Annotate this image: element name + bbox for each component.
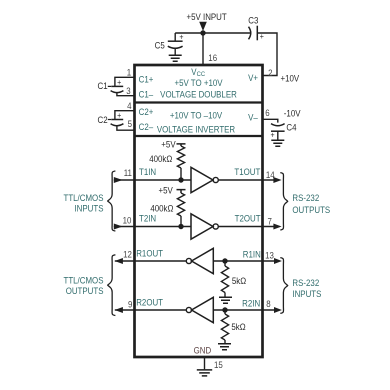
svg-text:C2–: C2– (139, 121, 154, 132)
arrow out of pin 14 (273, 177, 281, 183)
brace TTL/CMOS outputs (108, 255, 116, 316)
wire +5V input rail (C5 to C3 and down to pin 16) (175, 33, 277, 76)
svg-text:3: 3 (126, 86, 131, 97)
arrow out of pin 9 (115, 307, 123, 313)
svg-text:GND: GND (194, 345, 212, 356)
svg-text:C1+: C1+ (139, 74, 154, 85)
wire 400k 2 to T2 input (180, 216, 182, 227)
capacitor C2 curved plate (111, 124, 124, 126)
capacitor C5 top plate (168, 40, 183, 42)
svg-text:C4: C4 (286, 122, 296, 133)
svg-text:TTL/CMOS: TTL/CMOS (63, 192, 103, 203)
inverter R2 bubble (186, 307, 191, 312)
ground below C5 (169, 55, 182, 61)
svg-text:+5V INPUT: +5V INPUT (187, 12, 227, 23)
svg-text:C1–: C1– (139, 89, 154, 100)
svg-text:C3: C3 (248, 15, 258, 26)
svg-text:C1: C1 (97, 81, 107, 92)
svg-text:14: 14 (266, 169, 275, 180)
wire R1 junction to 5k (224, 261, 226, 266)
brace RS-232 outputs (280, 173, 287, 230)
wire R1OUT (115, 260, 187, 262)
svg-text:5kΩ: 5kΩ (232, 276, 246, 287)
arrow into pin 10 (114, 224, 123, 230)
wire 5k 1 to ground (224, 293, 226, 297)
svg-text:R2OUT: R2OUT (136, 297, 163, 308)
svg-text:T1IN: T1IN (139, 167, 156, 178)
svg-text:1: 1 (127, 67, 132, 78)
svg-text:10: 10 (123, 215, 132, 226)
brace RS-232 inputs (280, 258, 287, 314)
svg-text:9: 9 (128, 299, 133, 310)
wire pin 6 to C4 (263, 119, 278, 122)
brace TTL/CMOS inputs (108, 171, 116, 231)
svg-text:5: 5 (128, 119, 133, 130)
svg-text:R1OUT: R1OUT (136, 248, 163, 259)
svg-text:8: 8 (266, 299, 271, 310)
resistor 5k 2 (221, 314, 228, 340)
ground below C4 (271, 140, 284, 146)
svg-text:VCC: VCC (191, 66, 205, 78)
svg-text:+5V: +5V (161, 139, 176, 150)
svg-text:+: + (117, 111, 122, 121)
svg-text:+5V TO +10V: +5V TO +10V (174, 78, 222, 89)
svg-text:RS-232: RS-232 (292, 193, 319, 204)
svg-text:INPUTS: INPUTS (74, 203, 103, 214)
capacitor C5 leads (174, 33, 176, 55)
resistor 400k 1 (177, 146, 184, 168)
junction T1 input (178, 177, 183, 182)
wire 5k 2 to ground (224, 340, 226, 343)
arrow +5V input (down) (199, 22, 207, 31)
svg-text:12: 12 (123, 249, 132, 260)
IC body outline (MAX232) (135, 65, 263, 357)
capacitor C4 curved plate (271, 124, 285, 126)
ground at pin 15 (197, 370, 212, 376)
supply bar above 400k resistor 1 (177, 144, 186, 146)
svg-text:RS-232: RS-232 (292, 278, 319, 289)
arrow into pin 11 (114, 177, 123, 183)
capacitor C2 top plate (111, 119, 123, 121)
inverter R2 (receiver) (192, 297, 214, 322)
wire T1OUT (218, 179, 273, 181)
capacitor C1 curved plate (111, 91, 124, 93)
svg-text:T2OUT: T2OUT (235, 213, 261, 224)
svg-text:V–: V– (248, 112, 258, 123)
svg-text:7: 7 (267, 216, 272, 227)
inverter T2 bubble (213, 224, 218, 229)
arrow out of pin 12 (115, 258, 123, 264)
wire pin 1 to C1 (115, 77, 135, 86)
wire pin 4 to C2 (115, 111, 135, 120)
svg-text:OUTPUTS: OUTPUTS (66, 286, 104, 297)
svg-text:C2+: C2+ (139, 107, 154, 118)
ground below 5k 1 (219, 297, 232, 303)
svg-text:6: 6 (265, 108, 270, 119)
arrow out of pin 7 (273, 224, 281, 230)
svg-text:+5V: +5V (158, 185, 173, 196)
capacitor C4 straight plate (271, 130, 285, 132)
svg-text:-10V: -10V (284, 108, 301, 119)
capacitor C5 curved plate (168, 46, 183, 48)
arrow into pin 13 (274, 258, 282, 264)
svg-text:4: 4 (127, 100, 132, 111)
supply bar above 400k resistor 2 (177, 190, 186, 193)
svg-text:13: 13 (265, 250, 274, 261)
svg-text:R2IN: R2IN (242, 298, 260, 309)
wire 400k 1 to T1 input (180, 168, 182, 180)
svg-text:TTL/CMOS: TTL/CMOS (63, 275, 103, 286)
wire T1IN (114, 179, 191, 181)
wire C2 to pin 5 (117, 126, 135, 130)
svg-text:5kΩ: 5kΩ (231, 322, 245, 333)
wire R2IN (213, 309, 274, 311)
wire C1 to pin 3 (117, 93, 135, 96)
divider below voltage inverter section (135, 135, 263, 137)
leader C2 dash (108, 119, 111, 121)
svg-text:+: + (179, 32, 184, 42)
svg-text:+: + (117, 78, 122, 88)
resistor 400k 2 (177, 193, 184, 216)
svg-text:15: 15 (214, 360, 223, 371)
svg-text:VOLTAGE INVERTER: VOLTAGE INVERTER (157, 124, 235, 135)
svg-text:400kΩ: 400kΩ (149, 153, 172, 164)
junction T2 input (178, 224, 183, 229)
wire pin 15 to ground (204, 357, 206, 369)
inverter R1 (receiver) (192, 248, 214, 273)
svg-text:+: + (260, 32, 265, 42)
svg-text:11: 11 (124, 168, 132, 179)
inverter T2 (191, 214, 213, 239)
svg-text:T1OUT: T1OUT (234, 167, 260, 178)
capacitor C3 curved plate (249, 27, 251, 40)
capacitor C1 top plate (111, 85, 123, 87)
svg-text:400kΩ: 400kΩ (150, 203, 173, 214)
wire R2OUT (115, 309, 187, 311)
svg-text:OUTPUTS: OUTPUTS (292, 205, 330, 216)
wire T2IN (114, 226, 191, 228)
wire T2OUT (218, 226, 273, 228)
svg-text:+10V TO –10V: +10V TO –10V (170, 110, 223, 121)
inverter T1 (191, 167, 213, 192)
svg-text:+10V: +10V (281, 73, 300, 84)
svg-text:C2: C2 (97, 115, 107, 126)
svg-text:VOLTAGE DOUBLER: VOLTAGE DOUBLER (160, 89, 237, 100)
inverter R1 bubble (186, 258, 191, 263)
arrow into pin 8 (274, 307, 282, 313)
svg-text:INPUTS: INPUTS (292, 288, 321, 299)
svg-text:C5: C5 (155, 40, 165, 51)
wire R2 junction to 5k (224, 310, 226, 314)
svg-text:2: 2 (268, 67, 273, 78)
resistor 5k 1 (221, 266, 228, 293)
inverter T1 bubble (213, 177, 218, 182)
leader C1 dash (108, 85, 111, 87)
capacitor C4 bottom lead (277, 131, 279, 139)
svg-text:R1IN: R1IN (243, 249, 261, 260)
capacitor C3 straight plate (256, 26, 258, 41)
svg-text:+: + (271, 130, 276, 140)
svg-text:T2IN: T2IN (139, 213, 156, 224)
junction +5V input node (200, 30, 205, 35)
svg-text:16: 16 (208, 52, 217, 63)
wire R1IN (213, 260, 274, 262)
ground below 5k 2 (218, 344, 231, 350)
junction R2 input (222, 307, 227, 312)
junction R1 input (222, 258, 227, 263)
svg-text:V+: V+ (248, 73, 258, 84)
divider below voltage doubler section (135, 101, 263, 103)
